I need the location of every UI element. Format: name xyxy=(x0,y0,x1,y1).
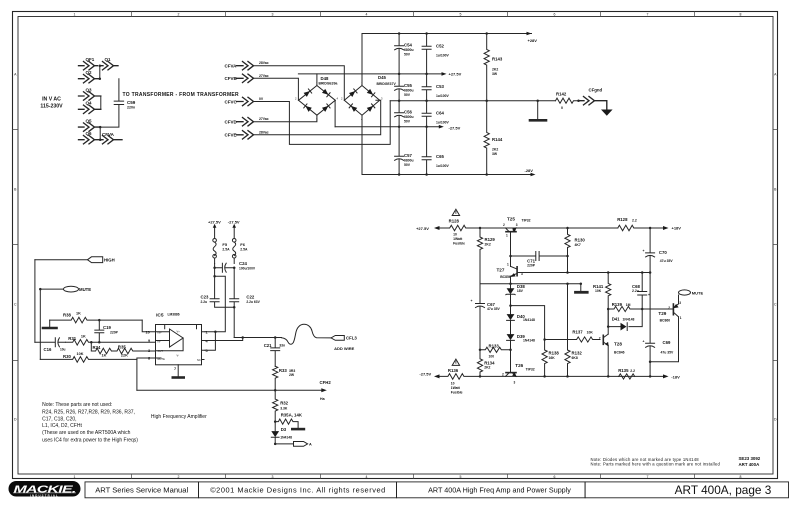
svg-text:1u/100V: 1u/100V xyxy=(436,121,450,125)
svg-text:3: 3 xyxy=(272,475,274,479)
svg-text:R135: R135 xyxy=(618,368,629,373)
svg-text:16K: 16K xyxy=(549,356,556,360)
svg-text:ART 400A, page 3: ART 400A, page 3 xyxy=(675,483,772,497)
svg-text:C55: C55 xyxy=(404,83,412,88)
wire MUTE vertical xyxy=(39,289,41,359)
note parts not used xyxy=(42,402,138,444)
svg-text:T25: T25 xyxy=(507,217,515,222)
transistor T27 xyxy=(497,262,524,279)
svg-text:A: A xyxy=(309,443,312,447)
svg-text:1K: 1K xyxy=(102,353,107,357)
svg-text:C21: C21 xyxy=(264,343,272,348)
svg-text:1Watt: 1Watt xyxy=(451,386,461,390)
connector tag MUTE xyxy=(39,286,91,292)
svg-text:CFH2: CFH2 xyxy=(320,380,332,385)
svg-text:BC846: BC846 xyxy=(614,350,625,354)
wire HIGH vertical xyxy=(34,260,36,343)
svg-text:C: C xyxy=(774,303,777,307)
svg-text:LM3886: LM3886 xyxy=(168,312,180,316)
titleblock boxes xyxy=(85,482,789,498)
capacitor C52 xyxy=(422,34,449,74)
svg-text:C22: C22 xyxy=(246,295,254,300)
svg-text:C56: C56 xyxy=(404,110,412,115)
svg-text:-27.5V: -27.5V xyxy=(449,126,461,131)
svg-text:CFL3: CFL3 xyxy=(346,336,357,341)
resistor R34 xyxy=(91,342,111,357)
svg-text:220P: 220P xyxy=(527,263,536,267)
connector CFVA left xyxy=(101,132,123,144)
svg-text:C64: C64 xyxy=(436,111,444,116)
svg-text:D41: D41 xyxy=(612,317,620,322)
connector CFVC xyxy=(225,97,264,106)
svg-text:BRIDGE39a: BRIDGE39a xyxy=(319,82,338,86)
diode D40 xyxy=(507,304,535,334)
wire junction Q5-Q6 xyxy=(99,127,101,140)
wire CFH2 line xyxy=(137,380,331,401)
svg-text:7: 7 xyxy=(174,367,176,371)
svg-text:6: 6 xyxy=(554,475,556,479)
svg-text:2.5A: 2.5A xyxy=(222,247,230,251)
svg-text:Q5: Q5 xyxy=(86,118,93,123)
diode D3 xyxy=(271,422,292,444)
resistor R134 xyxy=(477,350,495,377)
svg-text:1: 1 xyxy=(74,475,76,479)
bridge rectifier D45 xyxy=(341,75,396,122)
wire T27 base line xyxy=(517,271,651,274)
svg-text:R32: R32 xyxy=(280,401,288,406)
wire D45 top to +28V rail xyxy=(361,34,363,86)
svg-text:R129: R129 xyxy=(485,237,496,242)
svg-text:CFVE: CFVE xyxy=(225,133,237,138)
power fuse F6 xyxy=(228,219,248,263)
capacitor C59 xyxy=(100,79,136,127)
svg-text:C57: C57 xyxy=(404,153,412,158)
svg-text:6K8: 6K8 xyxy=(572,356,578,360)
svg-text:10u: 10u xyxy=(60,348,66,352)
resistor R132 xyxy=(565,284,582,377)
svg-text:6800u: 6800u xyxy=(404,159,414,163)
wire to pin10 xyxy=(142,320,155,332)
capacitor C68 xyxy=(632,273,650,310)
svg-text:C: C xyxy=(14,303,17,307)
ground R38 input xyxy=(43,320,57,328)
svg-text:T27: T27 xyxy=(497,268,505,273)
svg-text:2: 2 xyxy=(295,97,297,101)
svg-text:2K2: 2K2 xyxy=(492,68,498,72)
wire D38-D40 node to R137 column xyxy=(511,306,545,340)
capacitor C24 xyxy=(213,261,256,272)
transistor T28 xyxy=(599,334,625,354)
resistor R35A xyxy=(274,412,303,428)
svg-text:7: 7 xyxy=(647,475,649,479)
svg-text:1u/100V: 1u/100V xyxy=(436,94,450,98)
svg-text:D: D xyxy=(774,418,777,422)
svg-text:(These are used on the ART500A: (These are used on the ART500A which xyxy=(42,430,131,436)
svg-text:F5: F5 xyxy=(222,242,227,247)
svg-text:Q6: Q6 xyxy=(86,131,93,136)
resistor R136 fusible xyxy=(419,368,481,395)
connector Q5 xyxy=(79,118,101,131)
svg-text:MUTE: MUTE xyxy=(158,357,166,361)
svg-text:220n: 220n xyxy=(127,106,135,110)
svg-text:D: D xyxy=(14,418,17,422)
svg-text:6800u: 6800u xyxy=(404,115,414,119)
wire pin8 xyxy=(137,358,156,390)
connector CFgnd xyxy=(579,88,607,110)
svg-text:C23: C23 xyxy=(201,295,209,300)
svg-text:2.2u: 2.2u xyxy=(632,289,639,293)
wire R129 node line xyxy=(480,283,582,286)
svg-text:R24, R25, R26, R27,R28, R29, R: R24, R25, R26, R27,R28, R29, R36, R37, xyxy=(42,409,135,415)
svg-text:HIGH: HIGH xyxy=(104,258,115,263)
connector Q1 xyxy=(101,57,119,70)
svg-text:BC856: BC856 xyxy=(500,275,511,279)
ground pin7 xyxy=(173,376,184,379)
resistor R35 xyxy=(112,345,156,358)
svg-text:47u 35V: 47u 35V xyxy=(660,259,674,263)
svg-text:NC: NC xyxy=(197,358,201,362)
svg-text:T26: T26 xyxy=(515,363,523,368)
resistor R31 xyxy=(66,335,156,346)
svg-text:IN-: IN- xyxy=(158,339,162,343)
transistor T26 xyxy=(502,363,535,384)
svg-text:R142: R142 xyxy=(556,92,567,97)
svg-text:ART 400A High Freq Amp and Pow: ART 400A High Freq Amp and Power Supply xyxy=(428,485,571,494)
svg-text:C52: C52 xyxy=(436,44,444,49)
svg-text:2K2: 2K2 xyxy=(492,148,498,152)
svg-text:2K2: 2K2 xyxy=(485,242,491,246)
wire -28V bottom rail xyxy=(362,168,536,176)
svg-text:8: 8 xyxy=(148,357,150,361)
logo MACKIE INDUSTRIAL xyxy=(9,481,81,497)
svg-text:C16: C16 xyxy=(44,347,52,352)
svg-text:C53: C53 xyxy=(436,84,444,89)
svg-text:220P: 220P xyxy=(110,331,119,335)
wire CFVD to D48 bottom xyxy=(254,115,317,122)
svg-text:50V: 50V xyxy=(404,163,411,167)
svg-text:R143: R143 xyxy=(492,57,503,62)
svg-text:8: 8 xyxy=(740,475,742,479)
svg-text:10: 10 xyxy=(453,233,457,237)
capacitor C23 xyxy=(201,268,236,309)
svg-text:2: 2 xyxy=(178,475,180,479)
svg-text:3: 3 xyxy=(148,349,150,353)
svg-text:MUTE: MUTE xyxy=(692,290,704,295)
capacitor C57 xyxy=(395,127,414,175)
ground T27 rail xyxy=(576,284,588,293)
svg-text:C67: C67 xyxy=(487,302,495,307)
op-amp IC5 xyxy=(146,312,209,377)
wire mid 0V rail xyxy=(390,99,555,102)
svg-text:2.5A: 2.5A xyxy=(240,247,248,251)
svg-text:V+: V+ xyxy=(177,330,181,334)
svg-text:IN+: IN+ xyxy=(158,331,163,335)
svg-text:Q3: Q3 xyxy=(86,87,93,92)
svg-text:C17, C18, C20,: C17, C18, C20, xyxy=(42,416,76,422)
svg-text:+: + xyxy=(643,249,645,253)
svg-text:IC5: IC5 xyxy=(156,313,164,319)
svg-text:-27.5V: -27.5V xyxy=(228,219,240,224)
svg-text:C65: C65 xyxy=(436,154,444,159)
svg-text:T28: T28 xyxy=(614,341,622,346)
svg-text:3.3K: 3.3K xyxy=(280,406,288,410)
resistor R128b xyxy=(617,217,637,231)
svg-text:QF1: QF1 xyxy=(86,57,95,62)
svg-text:ART Series Service Manual: ART Series Service Manual xyxy=(95,485,188,494)
svg-text:-28V: -28V xyxy=(525,168,534,173)
resistor R139 xyxy=(607,302,669,312)
svg-text:R38: R38 xyxy=(63,313,71,318)
wire CFVB to D48 left xyxy=(254,78,299,100)
svg-text:V-: V- xyxy=(177,354,180,358)
svg-text:+27.5V: +27.5V xyxy=(208,219,221,224)
svg-text:CFVC: CFVC xyxy=(225,99,238,104)
svg-text:+27.5V: +27.5V xyxy=(416,226,429,231)
svg-text:CFVA: CFVA xyxy=(225,64,238,69)
svg-text:1M: 1M xyxy=(626,303,631,307)
svg-text:2: 2 xyxy=(178,13,180,17)
resistor R142 xyxy=(556,92,580,111)
svg-text:Ha: Ha xyxy=(320,397,326,401)
svg-text:3: 3 xyxy=(272,13,274,17)
svg-text:50V: 50V xyxy=(404,120,411,124)
connector Q3 xyxy=(79,87,101,100)
svg-text:50V: 50V xyxy=(404,93,411,97)
capacitor C65 xyxy=(422,127,449,175)
svg-text:+28V: +28V xyxy=(528,38,538,43)
capacitor C54 xyxy=(395,34,414,74)
svg-text:6800u: 6800u xyxy=(404,89,414,93)
svg-text:1u/100V: 1u/100V xyxy=(436,164,450,168)
resistor R133 xyxy=(479,344,512,359)
svg-text:28Vac: 28Vac xyxy=(259,61,269,65)
resistor R141 xyxy=(593,273,611,310)
svg-text:L1, IC4, D2, CFHt: L1, IC4, D2, CFHt xyxy=(42,423,82,429)
connector Q4 xyxy=(79,101,101,114)
svg-text:3: 3 xyxy=(381,97,383,101)
svg-text:Q1: Q1 xyxy=(105,57,112,62)
connector CFVA xyxy=(225,61,269,70)
svg-text:INDUSTRIAL: INDUSTRIAL xyxy=(30,493,59,497)
capacitor C67 xyxy=(471,284,501,350)
svg-text:CFVD: CFVD xyxy=(225,120,238,125)
svg-text:ADD WIRE: ADD WIRE xyxy=(334,346,355,351)
svg-text:1N4148: 1N4148 xyxy=(280,436,292,440)
svg-text:+: + xyxy=(471,299,473,303)
svg-text:IN V AC: IN V AC xyxy=(42,97,61,103)
svg-text:Fusible: Fusible xyxy=(451,390,463,394)
connector Q6 xyxy=(79,131,101,144)
resistor R38 xyxy=(50,312,143,323)
svg-text:+27.5V: +27.5V xyxy=(449,72,462,77)
connector tag HIGH xyxy=(35,257,115,263)
zener D38 xyxy=(506,277,526,305)
capacitor C55 xyxy=(395,74,414,101)
svg-text:1N4148: 1N4148 xyxy=(623,318,635,322)
svg-text:R136: R136 xyxy=(448,368,459,373)
svg-text:TO TRANSFORMER - FROM TRANSF: TO TRANSFORMER - FROM TRANSFORMER xyxy=(123,92,240,98)
svg-text:4: 4 xyxy=(366,13,368,17)
svg-text:50V: 50V xyxy=(404,53,411,57)
svg-text:8: 8 xyxy=(740,13,742,17)
svg-text:C19: C19 xyxy=(103,325,111,330)
note diodes xyxy=(591,457,721,467)
svg-text:18V: 18V xyxy=(517,289,524,293)
svg-text:TIP32: TIP32 xyxy=(526,368,535,372)
resistor R32 xyxy=(273,390,289,421)
svg-text:100u/100V: 100u/100V xyxy=(239,266,256,270)
ground CFgnd xyxy=(601,110,613,116)
svg-text:+: + xyxy=(643,339,645,343)
svg-text:D45: D45 xyxy=(378,75,386,80)
svg-text:2.2u: 2.2u xyxy=(201,300,208,304)
svg-text:Q2: Q2 xyxy=(86,70,93,75)
svg-text:BRIDGE37V: BRIDGE37V xyxy=(377,82,397,86)
svg-text:47u 35V: 47u 35V xyxy=(661,350,675,354)
svg-text:T29: T29 xyxy=(658,311,666,316)
svg-text:CFgnd: CFgnd xyxy=(589,88,603,93)
connector tag MUTE right xyxy=(679,290,704,304)
svg-text:10K: 10K xyxy=(595,289,602,293)
svg-text:R30: R30 xyxy=(63,354,71,359)
wire D48 right to -27.5V rail xyxy=(334,100,336,126)
warning triangle bottom xyxy=(452,359,459,365)
capacitor C19 xyxy=(95,320,119,342)
svg-text:4: 4 xyxy=(337,97,339,101)
svg-text:CFVB: CFVB xyxy=(225,76,238,81)
svg-text:1K: 1K xyxy=(81,335,86,339)
svg-text:2: 2 xyxy=(599,337,601,341)
wire T29 collector down xyxy=(649,317,679,363)
svg-text:R132: R132 xyxy=(572,351,583,356)
svg-text:3: 3 xyxy=(516,223,518,227)
wire +28V top rail xyxy=(362,32,537,43)
svg-text:Note: These parts are not used: Note: These parts are not used: xyxy=(42,402,112,408)
svg-text:uses IC4 for extra power to th: uses IC4 for extra power to the High Fre… xyxy=(42,438,138,444)
svg-text:0: 0 xyxy=(561,106,563,110)
capacitor C16 xyxy=(35,338,66,352)
svg-text:A: A xyxy=(774,73,777,77)
svg-text:D3: D3 xyxy=(281,427,287,432)
svg-text:3: 3 xyxy=(679,301,681,305)
svg-text:0V: 0V xyxy=(259,97,264,101)
svg-text:2.2u 63V: 2.2u 63V xyxy=(246,300,260,304)
svg-text:10: 10 xyxy=(146,331,150,335)
svg-text:3: 3 xyxy=(514,380,516,384)
svg-text:R141: R141 xyxy=(593,284,604,289)
svg-text:R33: R33 xyxy=(279,368,287,373)
power fuse F5 xyxy=(208,219,230,263)
svg-text:C54: C54 xyxy=(404,43,412,48)
svg-text:3: 3 xyxy=(316,118,318,122)
wire CFVC to mid rail xyxy=(254,101,391,145)
svg-text:C24: C24 xyxy=(239,261,247,266)
svg-text:1: 1 xyxy=(507,262,509,266)
svg-text:A: A xyxy=(14,73,17,77)
svg-text:R35A, 14K: R35A, 14K xyxy=(281,412,303,417)
svg-text:R133: R133 xyxy=(489,344,500,349)
svg-text:B: B xyxy=(774,188,777,192)
resistor R138 xyxy=(542,338,559,376)
connector QF1 xyxy=(79,57,98,70)
wire T29 base from R139 xyxy=(669,309,674,311)
resistor R144 xyxy=(484,101,503,175)
svg-text:47u 35V: 47u 35V xyxy=(487,307,501,311)
svg-text:3W: 3W xyxy=(492,72,498,76)
resistor R128 fusible xyxy=(416,219,481,246)
svg-text:R35: R35 xyxy=(118,345,126,350)
diode D41 xyxy=(607,309,642,331)
connector tag CFL3 xyxy=(331,336,357,352)
svg-text:2K2: 2K2 xyxy=(484,366,490,370)
wire D45 bottom to -28V rail xyxy=(361,115,363,174)
svg-text:7: 7 xyxy=(647,13,649,17)
svg-text:1N4148: 1N4148 xyxy=(523,338,535,342)
wire D48 top to +27.5V rail xyxy=(316,74,318,86)
wire -27.5V rail xyxy=(335,125,461,131)
svg-text:5: 5 xyxy=(460,13,462,17)
svg-text:100: 100 xyxy=(489,355,495,359)
svg-text:1Watt: 1Watt xyxy=(453,237,463,241)
svg-text:2: 2 xyxy=(503,223,505,227)
svg-text:1u/100V: 1u/100V xyxy=(436,54,450,58)
svg-text:SE23 3092: SE23 3092 xyxy=(739,456,761,461)
svg-text:R144: R144 xyxy=(492,137,503,142)
connector Q2 xyxy=(79,70,100,83)
label SE23 3092 xyxy=(739,456,761,467)
svg-text:2.2: 2.2 xyxy=(632,218,637,222)
svg-text:C69: C69 xyxy=(663,340,671,345)
connector CFVE xyxy=(225,130,269,139)
transistor T25 xyxy=(503,217,531,238)
svg-text:C70: C70 xyxy=(659,250,667,255)
svg-text:Q4: Q4 xyxy=(86,101,93,106)
diode D39 xyxy=(507,334,535,373)
capacitor C21 xyxy=(264,338,285,367)
svg-text:-18V: -18V xyxy=(671,375,680,380)
svg-text:9: 9 xyxy=(148,339,150,343)
svg-text:27Vac: 27Vac xyxy=(259,117,269,121)
resistor R143 xyxy=(484,34,503,101)
wire output node xyxy=(234,336,281,339)
svg-text:ART 400A: ART 400A xyxy=(739,462,761,467)
svg-text:Fusible: Fusible xyxy=(453,242,465,246)
wire CFVA to D45 left xyxy=(254,66,345,101)
resistor R30 xyxy=(40,352,137,362)
connector CFVD xyxy=(225,117,269,126)
svg-text:BC860: BC860 xyxy=(660,319,671,323)
resistor R130 xyxy=(565,228,585,273)
svg-text:D48: D48 xyxy=(321,76,329,81)
svg-text:28Vac: 28Vac xyxy=(259,130,269,134)
svg-text:1K: 1K xyxy=(76,312,81,316)
label IN VAC xyxy=(40,97,63,110)
transistor T29 xyxy=(658,301,681,323)
resistor R137 xyxy=(545,330,600,343)
capacitor C56 xyxy=(395,101,414,127)
capacitor C53 xyxy=(422,74,449,101)
svg-text:4: 4 xyxy=(366,475,368,479)
svg-text:5: 5 xyxy=(206,349,208,353)
svg-text:2.2: 2.2 xyxy=(630,369,635,373)
svg-text:R130: R130 xyxy=(575,238,586,243)
svg-text:3W: 3W xyxy=(492,152,498,156)
svg-text:115-230V: 115-230V xyxy=(40,104,63,110)
connector CFVB xyxy=(225,74,269,83)
capacitor C71 xyxy=(509,252,569,268)
svg-text:10: 10 xyxy=(451,382,455,386)
resistor R135 xyxy=(618,368,635,379)
